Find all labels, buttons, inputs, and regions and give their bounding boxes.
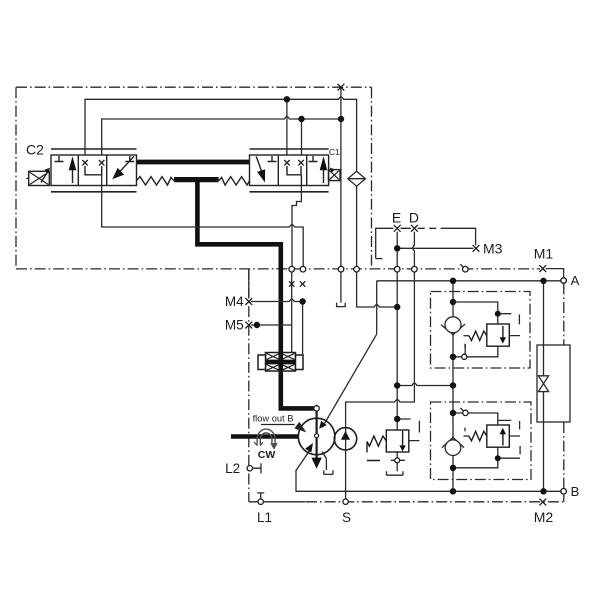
svg-text:E: E: [392, 210, 401, 226]
svg-text:CW: CW: [258, 449, 276, 461]
svg-text:A: A: [571, 273, 580, 288]
svg-text:D: D: [409, 210, 419, 226]
svg-text:B: B: [571, 484, 580, 499]
svg-text:M4: M4: [225, 294, 244, 309]
svg-text:M5: M5: [225, 318, 244, 333]
svg-text:M1: M1: [534, 245, 554, 261]
svg-text:S: S: [342, 510, 351, 525]
svg-text:M2: M2: [534, 509, 554, 525]
svg-text:C1: C1: [329, 147, 340, 157]
svg-text:L1: L1: [257, 510, 272, 525]
svg-text:C2: C2: [26, 141, 44, 157]
svg-text:L2: L2: [225, 461, 240, 476]
svg-text:flow out B: flow out B: [253, 414, 294, 424]
svg-text:M3: M3: [483, 241, 503, 257]
